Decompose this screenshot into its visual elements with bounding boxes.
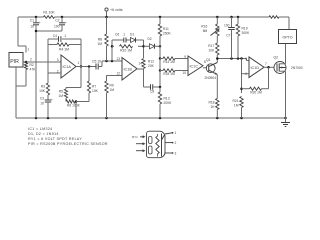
capacitor C8 <box>151 84 153 90</box>
label R17 10K <box>208 44 215 53</box>
note PIR = RS200B <box>28 142 108 146</box>
node ladder R14 <box>159 57 162 60</box>
svg-text:C8: C8 <box>150 90 154 94</box>
optocoupler OPTO <box>279 30 297 44</box>
resistor R8 <box>105 17 108 61</box>
label D2 <box>148 37 152 41</box>
wire IC1C out to Q1 base <box>203 67 206 69</box>
node C5 junction <box>88 65 91 68</box>
svg-text:C6: C6 <box>115 33 119 37</box>
wire R14 line <box>160 58 188 60</box>
capacitor C5 <box>96 64 98 70</box>
svg-text:OPTO: OPTO <box>282 36 292 40</box>
op-amp IC1C <box>188 56 203 76</box>
resistor R18 <box>216 99 219 119</box>
wire IC1A -in <box>48 72 61 74</box>
node IC1D out <box>267 66 270 69</box>
svg-text:PIR = RS200B PYROELECTRIC SENS: PIR = RS200B PYROELECTRIC SENSOR <box>28 142 108 146</box>
svg-text:7: 7 <box>265 62 267 66</box>
label R2 47K <box>30 63 37 72</box>
transistor Q1 <box>206 63 217 75</box>
label R6 100K <box>67 104 81 108</box>
resistor R2 <box>24 62 27 70</box>
wire Q2 source <box>279 71 285 118</box>
label pin 2 <box>57 70 59 74</box>
svg-text:6M: 6M <box>203 29 208 33</box>
svg-text:1M: 1M <box>97 42 102 46</box>
label C4 .1 <box>53 34 67 38</box>
label R8 1M <box>97 38 102 47</box>
capacitor C1 <box>33 17 41 25</box>
svg-text:3: 3 <box>57 58 59 62</box>
diode D1 <box>131 38 136 43</box>
wire C2 bottom to C1 column <box>36 25 62 31</box>
wire -in column <box>241 59 243 94</box>
node R2 tap <box>25 61 28 64</box>
wire R10 branch <box>112 45 144 47</box>
svg-text:PIR: PIR <box>10 59 19 65</box>
svg-text:+: + <box>39 21 41 25</box>
svg-text:R18: R18 <box>208 101 214 105</box>
wire IC1A +in <box>60 61 62 63</box>
resistor R20 <box>250 87 262 90</box>
svg-text:2N7000: 2N7000 <box>291 66 303 70</box>
label C3 10 <box>40 97 44 106</box>
label relay pin 1 <box>175 131 177 135</box>
label RY1 <box>132 135 138 139</box>
wire PIR pin3 to ground <box>15 67 17 118</box>
svg-text:R4 1M: R4 1M <box>59 48 69 52</box>
wire R6 to ground <box>75 102 77 119</box>
svg-text:D2: D2 <box>148 37 152 41</box>
svg-text:2: 2 <box>175 141 177 145</box>
resistor R14 <box>163 57 175 60</box>
svg-text:R16: R16 <box>201 25 207 29</box>
svg-text:IC1B: IC1B <box>124 67 133 71</box>
capacitor C3 <box>45 95 53 102</box>
node rail-R19 <box>237 16 240 19</box>
op-amp IC1D <box>249 57 264 78</box>
wire ground bottom rail <box>16 117 286 119</box>
node R8 bias tap <box>105 60 108 63</box>
wire Q1 collector <box>216 59 218 63</box>
svg-text:C4: C4 <box>53 34 57 38</box>
svg-text:+: + <box>65 21 67 25</box>
resistor R5 <box>64 88 67 99</box>
svg-text:1M: 1M <box>110 88 115 92</box>
svg-text:1M: 1M <box>234 104 239 108</box>
svg-text:IC1A: IC1A <box>63 65 72 69</box>
svg-text:R9: R9 <box>110 84 114 88</box>
label +6 volts <box>110 8 123 12</box>
wire +6V terminal drop <box>106 11 108 17</box>
svg-text:D1: D1 <box>130 33 134 37</box>
svg-text:C1: C1 <box>30 19 34 23</box>
resistor R19 <box>236 17 239 59</box>
label pin 8 <box>204 60 206 64</box>
capacitor C6 <box>124 38 126 43</box>
label 2N7000 <box>291 66 303 70</box>
node ladder D2 <box>159 45 162 48</box>
wire R20 line <box>242 88 269 90</box>
node gnd-C1C2 <box>35 117 38 120</box>
wire C1 to ground <box>35 25 37 118</box>
svg-text:R3: R3 <box>41 85 45 89</box>
diode D2 wire <box>144 45 150 47</box>
svg-text:R11: R11 <box>163 27 169 31</box>
label pin 12 <box>116 72 120 76</box>
svg-text:100: 100 <box>224 24 230 28</box>
wire ladder to C8 <box>159 71 161 88</box>
label 2N3904 <box>205 76 217 80</box>
wire IC1D -in <box>242 73 250 75</box>
wire feedback right column <box>80 39 82 67</box>
node rail-R8 <box>105 16 108 19</box>
label pin 13 <box>116 57 120 61</box>
relay RY1 <box>147 131 166 158</box>
wire R12 to C8 <box>144 69 151 88</box>
wire IC1D output <box>264 66 274 68</box>
resistor R9 <box>105 76 108 119</box>
svg-text:2N3904: 2N3904 <box>205 76 217 80</box>
label R11 250K <box>163 27 172 36</box>
label pin 3 <box>57 58 59 62</box>
label R21 1M <box>232 99 238 108</box>
svg-text:R12: R12 <box>148 60 154 64</box>
resistor R10 <box>120 45 133 48</box>
diode D2 <box>150 44 155 49</box>
node ladder R15 <box>159 69 162 72</box>
label R1 10K <box>43 11 55 15</box>
label R14 1M <box>163 60 175 64</box>
label R16 6M <box>201 25 207 34</box>
resistor R4 <box>57 43 69 46</box>
node C7 bottom <box>230 57 233 60</box>
wire rail to PIR pin1 <box>18 17 26 53</box>
svg-text:10K: 10K <box>39 89 46 93</box>
wire R4 branch <box>48 44 81 46</box>
svg-text:10K: 10K <box>208 49 215 53</box>
svg-text:200K: 200K <box>164 101 173 105</box>
label R18 1K <box>208 101 215 110</box>
node gnd-R13 <box>159 117 162 120</box>
svg-text:13: 13 <box>116 57 120 61</box>
label R13 200K <box>164 97 173 106</box>
svg-text:RY1 = 6 VOLT SPDT RELAY: RY1 = 6 VOLT SPDT RELAY <box>28 137 82 141</box>
wire +6V top rail mid section <box>55 16 270 18</box>
node ladder C8 <box>159 86 162 89</box>
svg-text:5: 5 <box>245 57 247 61</box>
svg-text:10: 10 <box>30 25 34 29</box>
svg-text:20K: 20K <box>148 64 155 68</box>
node R19 bottom <box>237 57 243 60</box>
op-amp IC1B <box>122 58 137 81</box>
resistor R6 <box>66 100 75 103</box>
svg-text:1: 1 <box>28 48 30 52</box>
resistor R12 <box>142 59 145 69</box>
svg-text:+: + <box>51 98 53 102</box>
node R6-R7 join <box>75 100 78 103</box>
node R20 join <box>240 87 243 90</box>
svg-text:C2: C2 <box>55 19 59 23</box>
wire feedback left column <box>47 39 49 73</box>
resistor R7 <box>87 67 90 94</box>
node gnd-R9 <box>105 117 108 120</box>
svg-text:1: 1 <box>175 131 177 135</box>
svg-text:10K: 10K <box>92 89 99 93</box>
wire IC1B out to feedback column <box>137 40 144 69</box>
label R7 10K <box>92 85 99 94</box>
svg-text:C7: C7 <box>226 34 230 38</box>
wire D2 to ladder <box>155 45 161 47</box>
svg-text:R2: R2 <box>30 63 34 67</box>
resistor R17 <box>216 36 219 59</box>
resistor R22 opto feed <box>269 16 279 19</box>
resistor R13 <box>158 87 161 118</box>
label C7 100 <box>224 24 231 38</box>
wire Q1 emitter <box>216 75 218 99</box>
wire R10 column <box>111 40 114 61</box>
wire C3 to ground <box>47 102 49 118</box>
svg-text:RY1: RY1 <box>132 135 138 139</box>
label R10 1M <box>120 49 132 53</box>
resistor R3 <box>46 73 49 95</box>
capacitor C4 <box>59 36 61 42</box>
wire feedback top branch <box>48 38 81 40</box>
label Q2 <box>274 56 279 60</box>
svg-text:R8: R8 <box>98 38 102 42</box>
relay coil arrows <box>136 135 146 152</box>
svg-text:R14 1M: R14 1M <box>163 60 175 64</box>
label C2 100 <box>54 19 60 29</box>
label pin 2 <box>30 58 32 62</box>
transistor Q2 <box>274 62 286 74</box>
label R5 1M <box>58 90 63 99</box>
wire PIR pin2 signal <box>23 61 61 63</box>
label C1 10 <box>30 19 34 29</box>
wire top rail to opto corner <box>279 17 289 30</box>
svg-text:R7: R7 <box>92 85 96 89</box>
wire C8 to ladder <box>153 86 160 88</box>
svg-text:C3: C3 <box>40 97 44 101</box>
node gnd-C3 <box>47 117 50 120</box>
label C8 <box>150 90 154 94</box>
node D2 junction <box>142 45 145 48</box>
wire timing node <box>216 57 246 60</box>
label pin 5 <box>245 57 247 61</box>
label C5 10 <box>92 60 101 64</box>
node gnd-Q2 source <box>284 117 287 120</box>
label pin 6 <box>245 72 247 76</box>
svg-text:Q1: Q1 <box>206 58 211 62</box>
node gnd-R6 <box>75 117 78 120</box>
wire R7 to R6 node <box>88 93 90 102</box>
note IC1 = LM324 <box>28 127 53 131</box>
node rail-C1 <box>35 16 38 19</box>
svg-text:C5 10: C5 10 <box>92 60 101 64</box>
wire R5 to R6 <box>65 98 67 102</box>
svg-text:300K: 300K <box>242 31 251 35</box>
resistor R21 <box>240 97 243 119</box>
wire +6V top rail left section <box>18 16 44 18</box>
label pin 1 <box>78 61 80 65</box>
label pin 10 <box>182 71 186 75</box>
label pin 9 <box>184 55 186 59</box>
label C6 .1 D1 <box>115 33 134 37</box>
svg-text:R19: R19 <box>242 27 248 31</box>
label pin 3 <box>25 65 27 69</box>
svg-text:Q2: Q2 <box>274 56 279 60</box>
wire ladder segment <box>159 59 161 71</box>
wire R2 to ground join <box>16 70 26 87</box>
wire output to R5 <box>66 67 81 88</box>
node +6V terminal <box>105 8 108 11</box>
wire out to R20 <box>268 67 270 88</box>
svg-text:+6 volts: +6 volts <box>110 8 123 12</box>
wire node to IC1D +in <box>247 59 250 61</box>
svg-text:D1, D2 = 1N914: D1, D2 = 1N914 <box>28 132 59 136</box>
svg-text:R20 1M: R20 1M <box>250 91 262 95</box>
label Q1 <box>206 58 211 62</box>
label R20 1M <box>250 91 262 95</box>
svg-text:10: 10 <box>40 102 44 106</box>
svg-text:R10 1M: R10 1M <box>120 49 132 53</box>
label R12 20K <box>148 60 155 69</box>
svg-text:R21: R21 <box>232 99 238 103</box>
label R3 10K <box>39 85 46 94</box>
svg-text:2: 2 <box>30 58 32 62</box>
svg-text:R13: R13 <box>164 97 170 101</box>
PIR sensor <box>9 53 23 68</box>
svg-text:.1: .1 <box>123 33 126 37</box>
svg-text:1: 1 <box>78 61 80 65</box>
svg-text:47K: 47K <box>30 68 37 72</box>
capacitor C7 <box>228 17 237 59</box>
svg-text:12: 12 <box>116 72 120 76</box>
node C1-C2 join <box>35 30 38 33</box>
resistor R11 <box>158 17 161 59</box>
node gnd-R21 <box>240 117 243 120</box>
node rail-C2 <box>61 16 64 19</box>
label R4 1M <box>59 48 69 52</box>
svg-text:IC1D: IC1D <box>251 66 260 70</box>
svg-text:R17: R17 <box>208 44 214 48</box>
svg-text:R6 100K: R6 100K <box>67 104 81 108</box>
svg-text:100: 100 <box>54 25 60 29</box>
svg-text:9: 9 <box>184 55 186 59</box>
svg-text:1M: 1M <box>58 94 63 98</box>
svg-text:10: 10 <box>182 71 186 75</box>
node rail-R16 <box>216 16 219 19</box>
label pin 14 <box>139 61 143 65</box>
svg-text:3: 3 <box>175 152 177 156</box>
wire R9 to pin12 <box>107 75 123 77</box>
svg-text:R15 1M: R15 1M <box>163 72 175 76</box>
op-amp IC1A <box>61 55 76 78</box>
relay pins <box>165 132 173 154</box>
label R15 1M <box>163 72 175 76</box>
svg-text:R1 10K: R1 10K <box>43 11 55 15</box>
note D1 D2 = 1N914 <box>28 132 59 136</box>
label pin 7 <box>265 62 267 66</box>
wire R6 to R7 link <box>76 101 89 103</box>
svg-text:.1: .1 <box>64 34 67 38</box>
ground <box>281 118 290 127</box>
capacitor C2 <box>59 17 67 25</box>
node rail-R11 <box>159 16 162 19</box>
label pin 1 <box>28 48 30 52</box>
resistor R1 <box>44 16 55 19</box>
label R9 1M <box>110 84 115 93</box>
label R19 300K <box>242 27 251 36</box>
node IC1A output <box>80 65 83 68</box>
svg-text:250K: 250K <box>163 32 172 36</box>
wire Q2 drain <box>279 44 285 64</box>
wire R15 line <box>160 70 188 72</box>
node R10 tap <box>111 60 114 63</box>
node gnd-R18 <box>216 117 219 120</box>
wire IC1A output <box>76 66 96 68</box>
node rail-C7 <box>230 16 233 19</box>
svg-text:IC1 = LM324: IC1 = LM324 <box>28 127 53 131</box>
svg-text:14: 14 <box>139 61 143 65</box>
wire C6-D1 branch <box>112 39 144 41</box>
resistor R16 trimmer <box>211 17 220 36</box>
svg-text:IC1C: IC1C <box>190 64 199 68</box>
wire C5 to pin13 <box>98 61 122 67</box>
svg-text:R5: R5 <box>59 90 63 94</box>
label relay pin 3 <box>175 152 177 156</box>
note RY1 = relay <box>28 137 82 141</box>
resistor R15 <box>163 69 175 72</box>
label relay pin 2 <box>175 141 177 145</box>
